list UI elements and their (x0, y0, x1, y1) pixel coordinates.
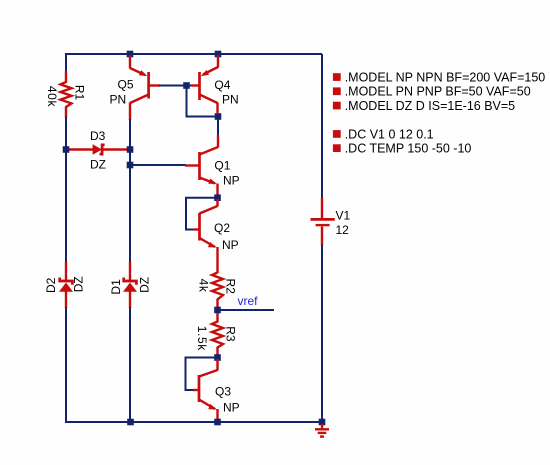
resistor R2 (212, 273, 223, 308)
zener diode D2 (59, 262, 73, 308)
wire left rail middle (65, 117, 67, 264)
wire base bus Q5-Q4 (159, 85, 192, 87)
wire Q5 collector to D3 node (129, 119, 131, 263)
wire Q3 base loop (186, 358, 216, 391)
junction bottom rail Q3 (214, 419, 221, 426)
svg-text:DZ: DZ (71, 276, 85, 292)
transistor Q3 (193, 359, 218, 421)
junction ground node (319, 419, 326, 426)
wire Q2 base loop (186, 198, 215, 230)
wire vref (218, 309, 274, 311)
svg-text:NP: NP (223, 400, 240, 414)
junction top rail Q5 (127, 51, 134, 58)
svg-text:40k: 40k (45, 86, 59, 108)
directive marker 4 (333, 130, 341, 138)
transistor Q5 (130, 55, 160, 120)
junction bottom rail D1 (127, 419, 134, 426)
junction left D3 (63, 146, 70, 153)
junction vref node (214, 307, 221, 314)
svg-text:Q2: Q2 (214, 221, 230, 235)
svg-text:D2: D2 (44, 277, 58, 293)
junction base node (183, 82, 190, 89)
wire right rail upper (321, 54, 323, 199)
svg-text:DZ: DZ (138, 277, 152, 293)
wire Q1 base from node (130, 164, 186, 166)
directive marker 5 (333, 144, 341, 152)
junction Q4 collector node (215, 113, 222, 120)
directive marker 1 (333, 73, 341, 81)
svg-text:.MODEL PN PNP BF=50 VAF=50: .MODEL PN PNP BF=50 VAF=50 (345, 85, 531, 99)
svg-text:12: 12 (336, 223, 350, 237)
svg-text:PN: PN (110, 92, 127, 106)
svg-text:Q1: Q1 (214, 159, 230, 173)
junction right D3 (127, 146, 134, 153)
svg-text:DZ: DZ (90, 158, 106, 172)
svg-text:NP: NP (222, 238, 239, 252)
ground (315, 424, 329, 437)
svg-text:PN: PN (222, 93, 239, 107)
transistor Q4 (191, 55, 218, 114)
svg-text:R1: R1 (72, 85, 86, 101)
junction Q1 emitter node (214, 194, 221, 201)
directive marker 3 (333, 102, 341, 110)
svg-text:.MODEL DZ D IS=1E-16 BV=5: .MODEL DZ D IS=1E-16 BV=5 (345, 99, 515, 113)
junction top rail Q4 (215, 51, 222, 58)
svg-text:D1: D1 (109, 279, 123, 295)
wire left rail lower (65, 307, 67, 423)
svg-text:R2: R2 (223, 279, 237, 295)
svg-text:D3: D3 (90, 129, 106, 143)
wire left rail upper (65, 54, 67, 72)
transistor Q1 (185, 135, 218, 196)
svg-text:vref: vref (238, 294, 259, 308)
svg-text:Q4: Q4 (214, 78, 230, 92)
junction R3 Q3 node (214, 354, 221, 361)
wire right rail lower (321, 245, 323, 423)
svg-text:R3: R3 (223, 326, 237, 342)
directive marker 2 (333, 87, 341, 95)
svg-text:Q3: Q3 (215, 385, 231, 399)
svg-text:.DC V1 0 12 0.1: .DC V1 0 12 0.1 (345, 127, 434, 141)
transistor Q2 (194, 199, 218, 273)
wire Q4 collector to Q1 (217, 117, 219, 137)
wire bottom rail (65, 421, 322, 423)
wire D1 to bottom rail (129, 307, 131, 422)
voltage source V1 (311, 198, 335, 246)
svg-text:V1: V1 (336, 209, 351, 223)
diode D3 (68, 144, 127, 155)
svg-text:.DC TEMP 150 -50 -10: .DC TEMP 150 -50 -10 (345, 142, 472, 156)
svg-text:4k: 4k (196, 279, 210, 293)
svg-text:Q5: Q5 (118, 77, 134, 91)
svg-text:.MODEL NP NPN BF=200 VAF=150: .MODEL NP NPN BF=200 VAF=150 (345, 70, 546, 84)
zener diode D1 (123, 262, 137, 308)
junction Q1 base tap (127, 162, 134, 169)
svg-text:NP: NP (223, 173, 240, 187)
resistor R1 (61, 71, 72, 118)
svg-text:1.5k: 1.5k (195, 326, 209, 351)
wire base node drop (187, 86, 219, 117)
wire top rail (66, 53, 322, 54)
resistor R3 (212, 313, 223, 355)
